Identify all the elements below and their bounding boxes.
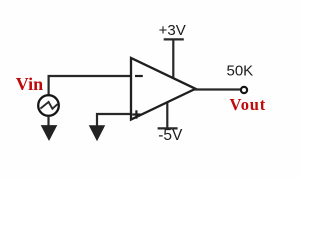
supply +3V wire	[172, 40, 174, 81]
op-amp minus input symbol	[135, 75, 143, 77]
wire non-inverting input to ground	[97, 114, 131, 127]
wire output	[194, 88, 241, 90]
supply -5V bar	[158, 127, 178, 129]
op-amp U1 body	[131, 58, 196, 120]
ground (non-inverting input)	[89, 125, 105, 141]
supply +3V bar	[164, 38, 184, 40]
supply -5V wire	[166, 100, 168, 128]
svg-text:-5V: -5V	[158, 127, 183, 144]
svg-text:Vout: Vout	[230, 95, 267, 114]
wire Vin to inverting input	[49, 76, 131, 95]
wire source to ground	[47, 116, 49, 127]
ground (source)	[41, 125, 58, 141]
op-amp plus input symbol	[132, 110, 140, 118]
svg-text:+3V: +3V	[159, 22, 186, 39]
svg-text:50K: 50K	[227, 63, 254, 80]
output terminal	[241, 87, 247, 93]
svg-text:Vin: Vin	[16, 74, 43, 94]
voltage source V1	[38, 95, 59, 116]
